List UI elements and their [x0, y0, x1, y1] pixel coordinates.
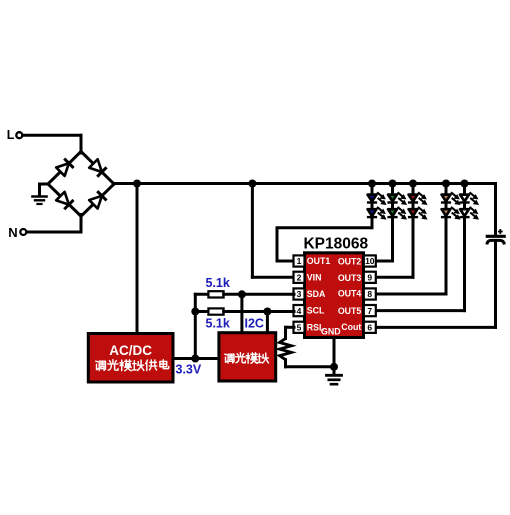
svg-text:KP18068: KP18068	[303, 236, 368, 253]
svg-text:L: L	[7, 128, 15, 142]
svg-text:1: 1	[297, 256, 302, 266]
svg-text:N: N	[8, 225, 17, 240]
svg-text:3.3V: 3.3V	[176, 363, 202, 377]
svg-text:OUT4: OUT4	[338, 288, 362, 298]
svg-text:3: 3	[297, 289, 302, 299]
svg-text:5: 5	[297, 323, 302, 333]
svg-text:2: 2	[297, 273, 302, 283]
svg-text:SCL: SCL	[307, 306, 325, 316]
svg-text:GND: GND	[321, 326, 341, 336]
svg-text:SDA: SDA	[307, 289, 326, 299]
svg-text:6: 6	[367, 323, 372, 333]
svg-text:7: 7	[367, 306, 372, 316]
svg-text:OUT2: OUT2	[338, 257, 362, 267]
svg-text:10: 10	[365, 256, 375, 266]
svg-text:VIN: VIN	[307, 272, 322, 282]
svg-text:Cout: Cout	[341, 322, 361, 332]
svg-text:OUT1: OUT1	[307, 256, 331, 266]
svg-text:9: 9	[367, 273, 372, 283]
svg-text:I2C: I2C	[245, 317, 264, 331]
svg-text:5.1k: 5.1k	[206, 276, 230, 290]
svg-text:5.1k: 5.1k	[206, 317, 230, 331]
svg-text:AC/DC: AC/DC	[109, 343, 152, 358]
svg-text:OUT5: OUT5	[338, 306, 362, 316]
svg-text:4: 4	[297, 306, 302, 316]
svg-text:OUT3: OUT3	[338, 273, 362, 283]
svg-text:8: 8	[367, 289, 372, 299]
